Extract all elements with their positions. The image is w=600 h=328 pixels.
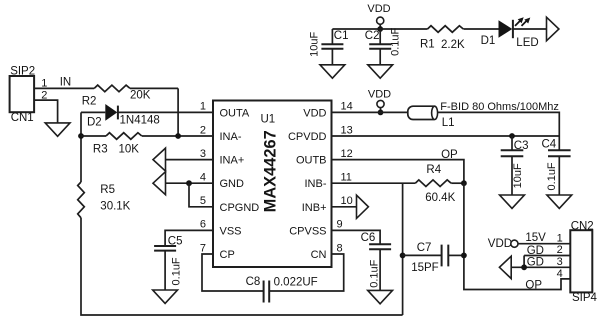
svg-text:1N4148: 1N4148 [120, 114, 160, 126]
wire IC pin10 INB+ [332, 206, 357, 208]
svg-text:OUTA: OUTA [220, 107, 250, 119]
wire C8 to IC pin8 CN [269, 254, 344, 291]
svg-text:C3: C3 [514, 140, 529, 152]
diode D1 LED [481, 17, 539, 49]
svg-text:D1: D1 [481, 35, 496, 47]
svg-text:10: 10 [341, 195, 353, 207]
svg-text:1: 1 [200, 101, 206, 113]
svg-text:2: 2 [200, 124, 206, 136]
wire R1 to D1 [463, 28, 498, 30]
capacitor C7 [403, 242, 464, 274]
wire IC pin11 INB- to R4 [332, 182, 416, 184]
wire CN2 pin3 [511, 266, 570, 268]
svg-text:0.1uF: 0.1uF [368, 259, 380, 287]
capacitor C1 [309, 29, 349, 65]
resistor R5 [78, 182, 131, 218]
svg-text:10K: 10K [119, 144, 140, 156]
wire R5 to bottom rail [81, 218, 403, 315]
svg-text:SIP2: SIP2 [10, 66, 35, 78]
junction dot GND/CPGND [186, 180, 192, 186]
ground C5 [153, 290, 178, 303]
ground C3 [500, 195, 525, 208]
arrow GND [153, 172, 166, 195]
svg-text:9: 9 [337, 219, 343, 231]
svg-text:C4: C4 [542, 139, 557, 151]
wire CN1 pin2 to ground [34, 100, 58, 123]
svg-text:3: 3 [200, 148, 206, 160]
svg-text:1: 1 [557, 232, 563, 244]
svg-text:CPVSS: CPVSS [289, 225, 326, 237]
capacitor C2 [365, 27, 402, 64]
junction dot GD [521, 264, 527, 270]
svg-text:4: 4 [200, 172, 206, 184]
svg-text:MAX44267: MAX44267 [262, 130, 280, 212]
svg-text:14: 14 [341, 101, 353, 113]
svg-text:12: 12 [341, 148, 353, 160]
inductor L1 ferrite bead [408, 101, 559, 129]
op-amp U1 MAX44267 box [213, 101, 332, 268]
arrow LED output [547, 17, 559, 41]
svg-text:VDD: VDD [368, 88, 391, 100]
svg-text:C2: C2 [365, 30, 380, 42]
junction dot VDD rail [377, 26, 383, 32]
connector CN1 SIP2 box [10, 66, 36, 125]
svg-text:3: 3 [557, 256, 563, 268]
svg-text:R1: R1 [420, 39, 435, 51]
svg-text:10uF: 10uF [309, 31, 321, 56]
svg-text:20K: 20K [130, 89, 151, 101]
svg-text:VDD: VDD [488, 238, 512, 250]
svg-text:10uF: 10uF [512, 163, 524, 188]
wire CN2 pin2 [524, 256, 570, 268]
svg-text:R5: R5 [100, 184, 115, 196]
resistor R4 [415, 164, 455, 204]
wire IC pin12 OUTB to OP corner [332, 160, 464, 184]
wire bottom rail up to INB- [402, 183, 404, 315]
svg-text:INA-: INA- [220, 131, 242, 143]
wire OP vertical down [464, 183, 570, 289]
svg-text:OUTB: OUTB [296, 155, 327, 167]
svg-text:C1: C1 [334, 30, 349, 42]
svg-text:U1: U1 [261, 113, 276, 125]
wire VDD to CN2 pin1 [518, 243, 570, 245]
svg-text:VDD: VDD [367, 3, 390, 15]
wire node A vertical [80, 112, 82, 182]
svg-text:11: 11 [341, 172, 352, 184]
junction dot R4/OP [461, 180, 467, 186]
ground CN1 [45, 123, 70, 136]
power VDD top [367, 3, 390, 27]
svg-text:INA+: INA+ [220, 155, 245, 167]
svg-text:INB+: INB+ [302, 202, 327, 214]
wire D1 to output arrow [513, 28, 547, 30]
svg-text:LED: LED [516, 37, 538, 49]
svg-text:0.1uF: 0.1uF [170, 257, 182, 285]
svg-text:SIP4: SIP4 [572, 292, 598, 304]
wire top rail C1 to R1 [332, 28, 427, 30]
svg-text:OP: OP [441, 149, 458, 161]
resistor R1 [420, 26, 465, 51]
ground C4 [547, 195, 572, 208]
wire CN1 pin1 to R2 [34, 87, 94, 89]
svg-text:2.2K: 2.2K [441, 39, 465, 51]
svg-text:C5: C5 [168, 236, 183, 248]
capacitor C4 [542, 136, 571, 195]
svg-text:0.1uF: 0.1uF [390, 27, 402, 55]
svg-text:INB-: INB- [305, 178, 327, 190]
svg-text:4: 4 [557, 268, 563, 280]
pin numbers left 1-7 [200, 101, 206, 255]
svg-text:15PF: 15PF [411, 262, 439, 274]
ground C2 [368, 65, 393, 78]
wire IC pin14 to L1 [332, 111, 408, 113]
ground C1 [320, 65, 345, 78]
wire R2 to vertical [130, 87, 178, 89]
junction dot R2/INA- [175, 133, 181, 139]
wire R2 down to INA- line [177, 88, 179, 136]
svg-text:OP: OP [525, 279, 542, 291]
ground C6 [368, 290, 393, 303]
svg-text:L1: L1 [442, 117, 455, 129]
svg-text:30.1K: 30.1K [100, 201, 130, 213]
wire D2 to IC pin1 OUTA [118, 111, 213, 113]
junction dot C3 [509, 133, 515, 139]
wire L1 to C4 corner [438, 112, 560, 136]
wire R3 to IC pin2 INA- [142, 135, 213, 137]
svg-text:R2: R2 [82, 95, 97, 107]
svg-text:CPGND: CPGND [220, 202, 260, 214]
capacitor C5 [154, 230, 213, 290]
junction dot VDD pin14 [378, 110, 384, 116]
svg-text:CP: CP [220, 249, 235, 261]
junction dot C7 right [461, 253, 467, 259]
svg-text:60.4K: 60.4K [425, 192, 455, 204]
wire node A to R3 [81, 135, 106, 137]
svg-text:0.022UF: 0.022UF [274, 276, 318, 288]
svg-text:CN2: CN2 [571, 221, 594, 233]
pin names right [288, 107, 327, 261]
pin numbers right 8-14 [337, 101, 353, 255]
svg-text:CPVDD: CPVDD [288, 131, 327, 143]
svg-text:VSS: VSS [220, 225, 242, 237]
svg-text:7: 7 [200, 242, 206, 254]
resistor R3 [93, 133, 142, 156]
node A junction dot [78, 133, 84, 139]
arrow GD CN2 [499, 256, 511, 278]
svg-text:2: 2 [557, 244, 563, 256]
svg-text:C6: C6 [361, 232, 376, 244]
wire IC pin7 CP to C8 [202, 254, 264, 291]
wire R4 to OP vertical [451, 182, 464, 184]
svg-text:6: 6 [200, 219, 206, 231]
resistor R2 [82, 85, 151, 107]
power VDD pin14 [368, 88, 391, 110]
svg-text:C7: C7 [417, 242, 432, 254]
arrow INA+ [153, 148, 166, 171]
wire IC pin13 CPVDD rail [332, 135, 560, 137]
svg-text:5: 5 [200, 195, 206, 207]
junction dot C7 left [400, 253, 406, 259]
power VDD CN2 [488, 238, 518, 250]
svg-text:C8: C8 [246, 276, 261, 288]
connector CN2 SIP4 box [570, 221, 597, 304]
capacitor C3 [501, 136, 529, 195]
svg-text:D2: D2 [87, 116, 102, 128]
svg-text:R4: R4 [426, 164, 441, 176]
svg-text:8: 8 [337, 242, 343, 254]
capacitor C6 [332, 230, 392, 290]
wire GND to CPGND pin5 [189, 183, 213, 207]
svg-text:CN: CN [311, 249, 327, 261]
diode D2 [81, 104, 160, 128]
wire arrow to IC pin4 GND [166, 182, 214, 184]
svg-text:F-BID 80 Ohms/100Mhz: F-BID 80 Ohms/100Mhz [440, 101, 559, 113]
svg-text:VDD: VDD [303, 107, 326, 119]
arrow INB+ [357, 195, 369, 218]
svg-text:15V: 15V [525, 232, 546, 244]
capacitor C8 [246, 276, 318, 302]
svg-text:R3: R3 [93, 144, 108, 156]
wire arrow to IC pin3 INA+ [166, 159, 214, 161]
svg-text:0.1uF: 0.1uF [546, 162, 558, 190]
svg-text:13: 13 [341, 124, 353, 136]
svg-text:GND: GND [220, 178, 245, 190]
pin names left [220, 107, 260, 261]
svg-text:IN: IN [60, 77, 71, 89]
svg-text:CN1: CN1 [11, 112, 34, 124]
